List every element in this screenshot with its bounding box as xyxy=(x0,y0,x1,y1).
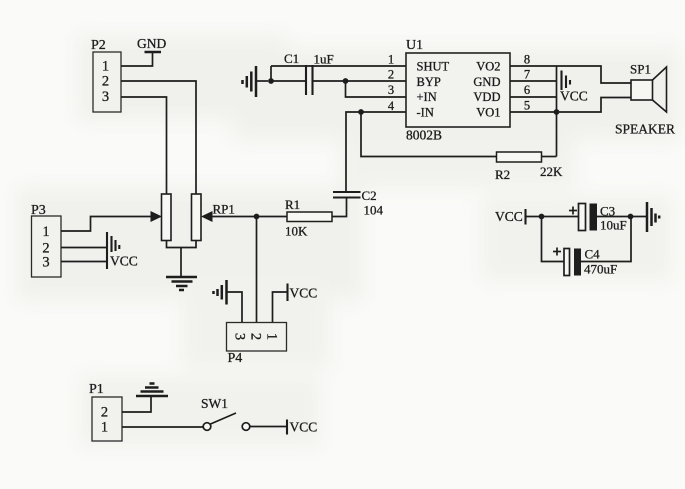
svg-text:RP1: RP1 xyxy=(213,202,235,217)
wire -IN branch to C2 column xyxy=(346,112,406,192)
wire P3 pin1 to RP1 left wiper xyxy=(61,217,151,232)
svg-text:VCC: VCC xyxy=(290,420,318,435)
svg-text:2: 2 xyxy=(248,333,264,340)
power port VCC (at SW1) xyxy=(287,420,317,435)
svg-text:VO2: VO2 xyxy=(476,60,500,74)
svg-text:P1: P1 xyxy=(89,382,104,397)
wire P4 pin1 to VCC xyxy=(273,292,288,323)
svg-text:VCC: VCC xyxy=(110,254,138,269)
node A (ground/C1 junction) xyxy=(268,78,274,84)
wire P1 pin2 to ground xyxy=(122,396,151,412)
power port GND xyxy=(137,36,166,52)
wire C3 to ground xyxy=(597,216,647,218)
wire node B to U1 pin2 xyxy=(346,80,407,82)
svg-text:1: 1 xyxy=(102,59,109,75)
wire C1 to node B xyxy=(313,80,346,82)
wire U1 pin7 stub xyxy=(510,80,557,82)
resistor R1 xyxy=(285,197,332,239)
wire node F down to C4 xyxy=(542,217,565,262)
node G (C3/C4 right junction) xyxy=(628,214,634,220)
svg-text:3: 3 xyxy=(102,89,109,105)
svg-text:-IN: -IN xyxy=(417,106,434,120)
ground (below RP1) xyxy=(166,277,197,290)
svg-text:2: 2 xyxy=(102,74,109,90)
wire U1 pin8 to speaker top xyxy=(510,66,631,83)
capacitor C2 xyxy=(333,188,384,218)
svg-text:VCC: VCC xyxy=(560,89,588,104)
svg-text:VCC: VCC xyxy=(495,209,523,224)
wire ground to P4 pin3 xyxy=(227,292,243,323)
svg-text:10K: 10K xyxy=(285,224,308,239)
wire P3 pin3 to VCC xyxy=(61,261,107,263)
svg-text:SPEAKER: SPEAKER xyxy=(615,122,675,137)
connector P1 xyxy=(89,382,122,441)
node E (wiper junction) xyxy=(254,214,260,220)
speaker SP1 xyxy=(615,62,675,137)
svg-text:VDD: VDD xyxy=(473,90,500,104)
power port VCC (at U1) xyxy=(560,71,588,104)
connector P2 xyxy=(91,38,121,112)
svg-text:4: 4 xyxy=(388,99,395,113)
svg-text:VO1: VO1 xyxy=(476,106,500,120)
connector P4 xyxy=(227,323,287,367)
node C (-IN junction) xyxy=(358,109,364,115)
wire right bus vertical xyxy=(556,66,558,157)
wire node E to RP1 right wiper xyxy=(213,216,257,218)
svg-text:3: 3 xyxy=(388,83,394,97)
wire P3 pin2 to VCC xyxy=(61,247,107,249)
svg-text:P3: P3 xyxy=(31,203,46,218)
wire C2 bottom to R1 right xyxy=(332,198,347,217)
connector P3 xyxy=(31,203,61,277)
node F (VCC/C3/C4 junction) xyxy=(539,214,545,220)
wire R2 right to node D xyxy=(542,156,557,158)
svg-text:1: 1 xyxy=(101,420,108,436)
svg-text:U1: U1 xyxy=(406,38,423,53)
wire P2 pin2 to RP1 right element xyxy=(121,81,196,194)
svg-text:R2: R2 xyxy=(495,167,510,182)
wire P1 pin1 to SW1 xyxy=(122,426,203,428)
power port VCC (at P4) xyxy=(288,284,318,302)
svg-text:P2: P2 xyxy=(91,38,106,53)
svg-text:1: 1 xyxy=(388,53,394,67)
wire node A up to SHUT row xyxy=(270,66,272,81)
svg-text:+IN: +IN xyxy=(417,90,437,104)
ground (at P4) xyxy=(214,280,227,305)
svg-text:1: 1 xyxy=(42,224,49,240)
svg-text:C1: C1 xyxy=(284,51,299,66)
svg-text:GND: GND xyxy=(473,75,500,89)
ground (right of C3) xyxy=(647,202,659,232)
wire node E down to P4 pin2 xyxy=(256,217,258,323)
svg-text:104: 104 xyxy=(364,203,384,218)
svg-text:BYP: BYP xyxy=(417,75,441,89)
svg-text:C4: C4 xyxy=(585,247,601,262)
svg-text:C2: C2 xyxy=(362,188,377,203)
svg-text:1uF: 1uF xyxy=(314,52,334,67)
wire U1 pin5 to speaker bottom xyxy=(510,98,631,113)
wire node A to C1 xyxy=(271,80,306,82)
svg-text:470uF: 470uF xyxy=(584,262,617,277)
svg-text:22K: 22K xyxy=(540,164,563,179)
wire P2 pin1 to GND xyxy=(121,52,153,66)
svg-text:SW1: SW1 xyxy=(201,396,228,411)
wire SHUT row to U1 pin1 xyxy=(271,65,406,67)
wire R1 left to node E xyxy=(257,216,288,218)
svg-text:7: 7 xyxy=(524,68,530,82)
resistor R2 xyxy=(495,152,563,182)
wire node C down to R2 row xyxy=(361,112,497,157)
svg-text:R1: R1 xyxy=(285,197,300,212)
svg-text:8: 8 xyxy=(524,53,530,67)
svg-text:3: 3 xyxy=(232,333,248,340)
wire RP1 bottoms joined xyxy=(167,241,197,248)
svg-text:VCC: VCC xyxy=(290,286,318,301)
wire P2 pin3 to RP1 left element xyxy=(121,97,167,194)
svg-text:P4: P4 xyxy=(228,351,243,366)
switch SW1 xyxy=(201,396,250,430)
node D (VO1 junction) xyxy=(554,109,560,115)
ground (above P1, inverted) xyxy=(136,384,168,397)
svg-text:SHUT: SHUT xyxy=(417,60,450,74)
wire VCC to C3 xyxy=(526,216,579,218)
power port VCC (at C3 row) xyxy=(495,209,526,225)
wire node B down to +IN row to U1 pin3 xyxy=(346,81,407,97)
capacitor C3 xyxy=(569,204,627,233)
svg-text:5: 5 xyxy=(524,99,530,113)
wire C4 right up to node G xyxy=(581,217,631,262)
wire U1 pin6 stub xyxy=(510,96,557,98)
svg-text:6: 6 xyxy=(524,83,530,97)
svg-text:3: 3 xyxy=(42,255,49,271)
svg-text:10uF: 10uF xyxy=(600,218,627,233)
svg-text:SP1: SP1 xyxy=(630,62,651,77)
capacitor C4 xyxy=(553,247,617,277)
svg-text:GND: GND xyxy=(137,36,166,51)
wire RP1 common down to ground xyxy=(180,248,182,278)
op-amp U1 (8002B) xyxy=(406,38,510,143)
svg-text:2: 2 xyxy=(101,405,108,421)
svg-text:8002B: 8002B xyxy=(406,128,442,143)
capacitor C1 xyxy=(284,51,334,95)
power port VCC (at P3) xyxy=(107,232,138,269)
ground (C1 input) xyxy=(243,66,269,97)
svg-text:2: 2 xyxy=(388,68,394,82)
node B (BYP junction) xyxy=(343,78,349,84)
potentiometer RP1 xyxy=(151,194,235,241)
wire SW1 to VCC xyxy=(250,426,287,428)
svg-text:1: 1 xyxy=(264,333,280,340)
